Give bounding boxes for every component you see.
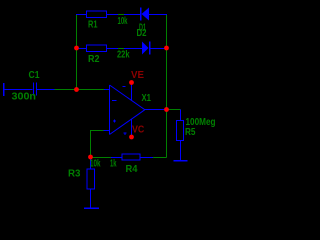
svg-text:300n: 300n xyxy=(12,92,37,103)
svg-text:D2: D2 xyxy=(137,28,147,39)
svg-text:R4: R4 xyxy=(126,164,138,175)
svg-text:22k: 22k xyxy=(117,50,130,61)
svg-text:R1: R1 xyxy=(88,20,98,31)
svg-text:10k: 10k xyxy=(118,16,128,27)
svg-text:R3: R3 xyxy=(68,169,81,180)
svg-text:R5: R5 xyxy=(185,127,196,138)
svg-text:10k: 10k xyxy=(90,159,101,170)
svg-text:R2: R2 xyxy=(88,54,100,65)
svg-text:X1: X1 xyxy=(142,93,152,104)
svg-text:1k: 1k xyxy=(110,159,117,170)
svg-text:VE: VE xyxy=(131,70,144,81)
svg-text:C1: C1 xyxy=(29,70,40,81)
svg-text:VC: VC xyxy=(132,125,144,136)
